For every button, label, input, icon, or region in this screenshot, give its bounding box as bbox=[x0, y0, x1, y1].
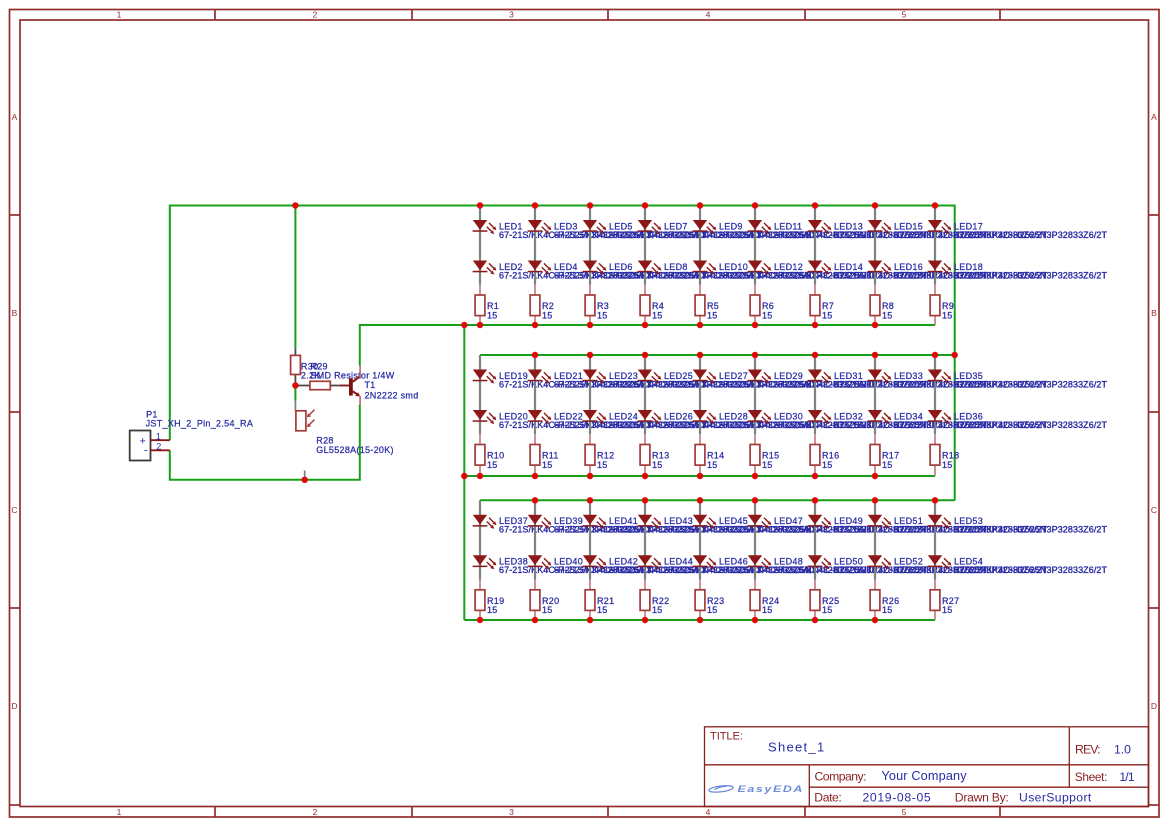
LED LED26 bbox=[638, 410, 818, 430]
svg-text:5: 5 bbox=[902, 807, 907, 817]
LED LED15 bbox=[868, 220, 1048, 240]
LED LED39 bbox=[528, 515, 708, 535]
svg-text:15: 15 bbox=[707, 605, 718, 615]
svg-text:67-21S/KK4C-H2525N3P32833Z6/2T: 67-21S/KK4C-H2525N3P32833Z6/2T bbox=[954, 270, 1108, 280]
EasyEDA logo bbox=[709, 784, 804, 794]
LED LED3 bbox=[528, 220, 708, 240]
pins LED25/LED26/R13 column bbox=[644, 355, 646, 476]
resistor R11 15 bbox=[530, 445, 559, 470]
LED LED27 bbox=[693, 370, 873, 390]
resistor R26 15 bbox=[870, 590, 899, 615]
junction dots group3 bottom rail bbox=[477, 617, 878, 623]
svg-text:3: 3 bbox=[509, 10, 514, 20]
pins LED35/LED36/R18 column bbox=[934, 355, 936, 476]
LED LED30 bbox=[748, 410, 928, 430]
pins LED17/LED18/R9 column bbox=[934, 206, 936, 326]
resistor R19 15 bbox=[475, 590, 504, 615]
resistor R30 2.2K bbox=[291, 348, 321, 385]
wire ground: P1 pin2 to T1 emitter bbox=[170, 405, 360, 480]
wire group1 bottom rail to T1 collector bbox=[360, 325, 935, 366]
LED LED34 bbox=[868, 410, 1048, 430]
wire group3 top rail bbox=[480, 499, 955, 501]
wire +V to R30 bbox=[294, 206, 296, 349]
pin 1 of P1 bbox=[151, 431, 170, 441]
svg-text:EasyEDA: EasyEDA bbox=[738, 784, 805, 794]
svg-text:Date:: Date: bbox=[814, 790, 842, 804]
svg-text:15: 15 bbox=[882, 605, 893, 615]
svg-text:C: C bbox=[11, 505, 17, 515]
svg-text:2: 2 bbox=[156, 441, 161, 451]
svg-text:A: A bbox=[12, 112, 18, 122]
svg-text:2: 2 bbox=[313, 807, 318, 817]
LED LED12 bbox=[748, 261, 928, 281]
LED LED54 bbox=[928, 555, 1108, 575]
resistor R2 15 bbox=[530, 295, 554, 320]
svg-text:1: 1 bbox=[156, 431, 161, 441]
junction dots group2 bottom rail bbox=[461, 473, 878, 479]
svg-text:15: 15 bbox=[822, 460, 833, 470]
resistor R20 15 bbox=[530, 590, 559, 615]
svg-text:15: 15 bbox=[542, 605, 553, 615]
pins LED11/LED12/R6 column bbox=[754, 206, 756, 326]
LED LED43 bbox=[638, 515, 818, 535]
pin 2 of P1 bbox=[151, 441, 170, 451]
svg-text:67-21S/KK4C-H2525N3P32833Z6/2T: 67-21S/KK4C-H2525N3P32833Z6/2T bbox=[954, 230, 1108, 240]
wire P1 pin1 to +V top rail bbox=[170, 206, 955, 501]
svg-text:1: 1 bbox=[117, 10, 122, 20]
LED LED1 bbox=[473, 220, 653, 240]
LED LED28 bbox=[693, 410, 873, 430]
resistor R14 15 bbox=[695, 445, 724, 470]
LED LED52 bbox=[868, 555, 1048, 575]
LED LED11 bbox=[748, 220, 928, 240]
svg-text:Sheet:: Sheet: bbox=[1075, 770, 1108, 784]
pins LED21/LED22/R11 column bbox=[534, 355, 536, 476]
junction dots group1 top rail bbox=[292, 202, 938, 208]
LED LED4 bbox=[528, 261, 708, 281]
photoresistor R28 GL5528A(15-20K) bbox=[295, 401, 393, 478]
LED LED33 bbox=[868, 370, 1048, 390]
wire base node to R28 bbox=[294, 386, 296, 401]
LED LED21 bbox=[528, 370, 708, 390]
svg-text:15: 15 bbox=[542, 310, 553, 320]
LED LED50 bbox=[808, 555, 988, 575]
pins LED37/LED38/R19 column bbox=[479, 500, 481, 620]
LED LED38 bbox=[473, 555, 653, 575]
svg-text:15: 15 bbox=[707, 460, 718, 470]
LED LED29 bbox=[748, 370, 928, 390]
svg-text:15: 15 bbox=[652, 310, 663, 320]
svg-text:T1: T1 bbox=[365, 380, 376, 390]
LED LED9 bbox=[693, 220, 873, 240]
svg-text:A: A bbox=[1151, 112, 1157, 122]
resistor R15 15 bbox=[750, 445, 779, 470]
svg-text:REV:: REV: bbox=[1075, 743, 1101, 757]
svg-text:4: 4 bbox=[706, 807, 711, 817]
svg-text:15: 15 bbox=[487, 605, 498, 615]
transistor T1 2N2222 smd bbox=[340, 366, 419, 405]
LED LED14 bbox=[808, 261, 988, 281]
LED LED47 bbox=[748, 515, 928, 535]
svg-text:2019-08-05: 2019-08-05 bbox=[863, 790, 931, 804]
svg-text:TITLE:: TITLE: bbox=[710, 731, 743, 743]
svg-text:15: 15 bbox=[762, 605, 773, 615]
wire group2 bottom rail bbox=[464, 475, 935, 477]
svg-text:Drawn By:: Drawn By: bbox=[955, 790, 1009, 804]
svg-text:15: 15 bbox=[822, 605, 833, 615]
pins LED39/LED40/R20 column bbox=[534, 500, 536, 620]
LED LED23 bbox=[583, 370, 763, 390]
svg-text:Company:: Company: bbox=[815, 769, 867, 783]
LED LED49 bbox=[808, 515, 988, 535]
svg-text:GL5528A(15-20K): GL5528A(15-20K) bbox=[316, 445, 394, 455]
svg-text:Your Company: Your Company bbox=[881, 769, 967, 783]
connector P1 JST_XH_2_Pin_2.54_RA bbox=[130, 410, 253, 461]
LED LED5 bbox=[583, 220, 763, 240]
LED LED16 bbox=[868, 261, 1048, 281]
LED LED45 bbox=[693, 515, 873, 535]
svg-text:15: 15 bbox=[882, 460, 893, 470]
pins LED33/LED34/R17 column bbox=[874, 355, 876, 476]
resistor R21 15 bbox=[585, 590, 614, 615]
pins LED53/LED54/R27 column bbox=[934, 500, 936, 620]
LED LED31 bbox=[808, 370, 988, 390]
LED LED40 bbox=[528, 555, 708, 575]
LED LED25 bbox=[638, 370, 818, 390]
pins LED45/LED46/R23 column bbox=[699, 500, 701, 620]
junction dots group3 top rail bbox=[532, 497, 938, 503]
resistor R3 15 bbox=[585, 295, 609, 320]
svg-text:15: 15 bbox=[942, 460, 953, 470]
resistor R23 15 bbox=[695, 590, 724, 615]
LED LED8 bbox=[638, 261, 818, 281]
resistor R22 15 bbox=[640, 590, 669, 615]
svg-text:1: 1 bbox=[117, 807, 122, 817]
LED LED17 bbox=[928, 220, 1108, 240]
title block bbox=[705, 727, 1149, 807]
LED LED42 bbox=[583, 555, 763, 575]
pins LED49/LED50/R25 column bbox=[814, 500, 816, 620]
svg-text:15: 15 bbox=[487, 460, 498, 470]
svg-text:D: D bbox=[1151, 701, 1157, 711]
svg-text:1/1: 1/1 bbox=[1119, 770, 1134, 784]
svg-text:15: 15 bbox=[707, 310, 718, 320]
pins LED9/LED10/R5 column bbox=[699, 206, 701, 326]
svg-text:2: 2 bbox=[313, 10, 318, 20]
LED LED6 bbox=[583, 261, 763, 281]
LED LED48 bbox=[748, 555, 928, 575]
title block texts bbox=[710, 731, 1107, 805]
svg-text:15: 15 bbox=[652, 460, 663, 470]
LED LED35 bbox=[928, 370, 1108, 390]
svg-text:2N2222 smd: 2N2222 smd bbox=[365, 391, 419, 401]
LED LED7 bbox=[638, 220, 818, 240]
LED LED44 bbox=[638, 555, 818, 575]
pins LED27/LED28/R14 column bbox=[699, 355, 701, 476]
svg-text:15: 15 bbox=[942, 310, 953, 320]
resistor R18 15 bbox=[930, 445, 959, 470]
resistor R12 15 bbox=[585, 445, 614, 470]
svg-text:-: - bbox=[144, 444, 148, 456]
svg-text:15: 15 bbox=[597, 605, 608, 615]
pins LED23/LED24/R12 column bbox=[589, 355, 591, 476]
LED LED51 bbox=[868, 515, 1048, 535]
svg-text:15: 15 bbox=[652, 605, 663, 615]
LED LED2 bbox=[473, 261, 653, 281]
LED LED24 bbox=[583, 410, 763, 430]
resistor R6 15 bbox=[750, 295, 774, 320]
svg-text:15: 15 bbox=[597, 460, 608, 470]
svg-text:UserSupport: UserSupport bbox=[1019, 791, 1092, 805]
svg-text:67-21S/KK4C-H2525N3P32833Z6/2T: 67-21S/KK4C-H2525N3P32833Z6/2T bbox=[954, 525, 1108, 535]
svg-text:1.0: 1.0 bbox=[1114, 743, 1131, 757]
LED LED46 bbox=[693, 555, 873, 575]
wire cathode bus vertical bbox=[463, 325, 465, 620]
svg-text:5: 5 bbox=[902, 10, 907, 20]
junction dots group2 top rail bbox=[532, 352, 958, 358]
pins LED3/LED4/R2 column bbox=[534, 206, 536, 326]
LED LED20 bbox=[473, 410, 653, 430]
svg-text:C: C bbox=[1151, 505, 1157, 515]
pins LED13/LED14/R7 column bbox=[814, 206, 816, 326]
svg-text:67-21S/KK4C-H2525N3P32833Z6/2T: 67-21S/KK4C-H2525N3P32833Z6/2T bbox=[954, 565, 1108, 575]
pins LED41/LED42/R21 column bbox=[589, 500, 591, 620]
resistor R16 15 bbox=[810, 445, 839, 470]
svg-text:15: 15 bbox=[762, 460, 773, 470]
wire group2 top rail bbox=[480, 354, 955, 356]
svg-text:15: 15 bbox=[882, 310, 893, 320]
svg-text:67-21S/KK4C-H2525N3P32833Z6/2T: 67-21S/KK4C-H2525N3P32833Z6/2T bbox=[954, 379, 1108, 389]
pins LED29/LED30/R15 column bbox=[754, 355, 756, 476]
pins LED19/LED20/R10 column bbox=[479, 355, 481, 476]
svg-text:15: 15 bbox=[487, 310, 498, 320]
svg-text:B: B bbox=[1151, 308, 1157, 318]
pins LED43/LED44/R22 column bbox=[644, 500, 646, 620]
pins LED31/LED32/R16 column bbox=[814, 355, 816, 476]
resistor R10 15 bbox=[475, 445, 504, 470]
LED LED18 bbox=[928, 261, 1108, 281]
resistor R27 15 bbox=[930, 590, 959, 615]
svg-text:Sheet_1: Sheet_1 bbox=[768, 740, 824, 755]
svg-text:3: 3 bbox=[509, 807, 514, 817]
resistor R25 15 bbox=[810, 590, 839, 615]
junction dots group1 bottom rail bbox=[461, 322, 878, 328]
wire group3 bottom rail bbox=[464, 619, 935, 621]
junction base node bbox=[292, 382, 298, 388]
LED LED41 bbox=[583, 515, 763, 535]
LED LED36 bbox=[928, 410, 1108, 430]
svg-text:15: 15 bbox=[942, 605, 953, 615]
svg-text:R28: R28 bbox=[316, 436, 333, 446]
svg-text:15: 15 bbox=[822, 310, 833, 320]
junction R28 on ground bbox=[302, 477, 308, 483]
resistor R24 15 bbox=[750, 590, 779, 615]
svg-text:15: 15 bbox=[597, 310, 608, 320]
resistor R5 15 bbox=[695, 295, 719, 320]
resistor R17 15 bbox=[870, 445, 899, 470]
LED LED32 bbox=[808, 410, 988, 430]
pins LED15/LED16/R8 column bbox=[874, 206, 876, 326]
svg-text:JST_XH_2_Pin_2.54_RA: JST_XH_2_Pin_2.54_RA bbox=[146, 419, 254, 429]
resistor R13 15 bbox=[640, 445, 669, 470]
pins LED5/LED6/R3 column bbox=[589, 206, 591, 326]
resistor R7 15 bbox=[810, 295, 834, 320]
svg-text:15: 15 bbox=[542, 460, 553, 470]
svg-text:67-21S/KK4C-H2525N3P32833Z6/2T: 67-21S/KK4C-H2525N3P32833Z6/2T bbox=[954, 420, 1108, 430]
resistor R4 15 bbox=[640, 295, 664, 320]
LED LED13 bbox=[808, 220, 988, 240]
resistor R8 15 bbox=[870, 295, 894, 320]
resistor R1 15 bbox=[475, 295, 499, 320]
LED LED22 bbox=[528, 410, 708, 430]
svg-text:D: D bbox=[11, 701, 17, 711]
svg-text:15: 15 bbox=[762, 310, 773, 320]
resistor R9 15 bbox=[930, 295, 954, 320]
LED LED37 bbox=[473, 515, 653, 535]
svg-text:B: B bbox=[12, 308, 18, 318]
resistor R29 SMD Resistor 1/4W bbox=[298, 362, 395, 390]
LED LED10 bbox=[693, 261, 873, 281]
LED LED19 bbox=[473, 370, 653, 390]
pins LED47/LED48/R24 column bbox=[754, 500, 756, 620]
pins LED7/LED8/R4 column bbox=[644, 206, 646, 326]
LED LED53 bbox=[928, 515, 1108, 535]
svg-text:4: 4 bbox=[706, 10, 711, 20]
pins LED51/LED52/R26 column bbox=[874, 500, 876, 620]
pins LED1/LED2/R1 column bbox=[479, 206, 481, 326]
